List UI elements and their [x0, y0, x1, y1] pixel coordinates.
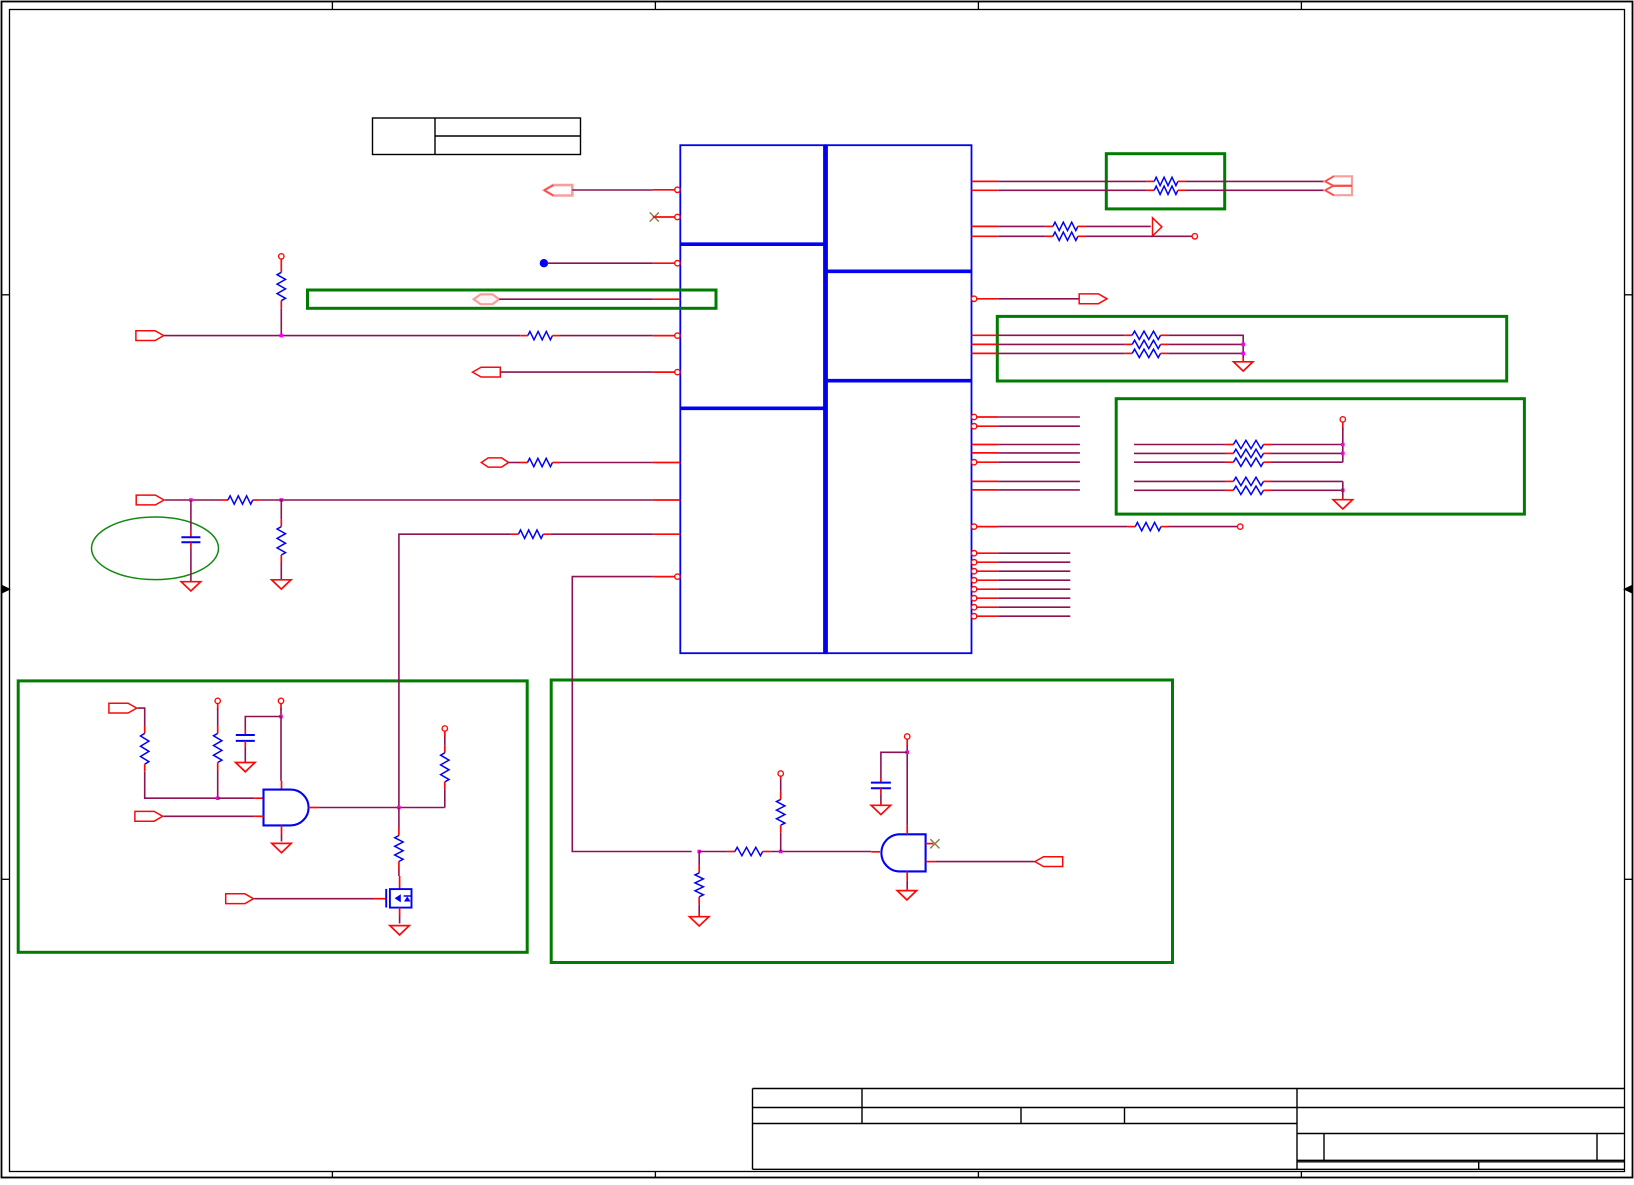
resistor R13 — [1125, 349, 1168, 357]
wire P9 to R20 — [138, 708, 145, 726]
port P5 hexagon — [481, 458, 508, 467]
resistor R11 — [1125, 331, 1168, 339]
AND2 nc pin lead — [926, 843, 934, 845]
wire R6 to vertical node — [399, 534, 511, 807]
port P4 — [473, 367, 501, 377]
resistor R18 — [1226, 486, 1271, 494]
wire P10 to AND1 — [164, 815, 255, 817]
wire U1 to P8 — [998, 298, 1079, 300]
pin U1 pin z — [971, 524, 998, 529]
mosfet Q1 — [386, 889, 411, 908]
ground G1 — [181, 582, 200, 591]
pin U1 pin bus0 — [971, 551, 998, 556]
wire U1 to bottom-middle box — [572, 577, 691, 852]
wire R2 to U1 — [560, 335, 653, 337]
pin U1 pin s — [971, 414, 998, 419]
pin U1 pin g — [653, 462, 681, 464]
wire U1 row 444.5 stub wire — [998, 444, 1080, 446]
pin U1 pin m — [972, 225, 999, 227]
wire U1 to R8 — [998, 189, 1146, 191]
stub circle above AND2 — [905, 734, 910, 739]
AND2 output lead — [926, 861, 936, 863]
wire U1 to R7 — [998, 180, 1146, 182]
highlight box right 2 — [1116, 399, 1524, 514]
lead below pull-up circle — [1342, 422, 1344, 430]
wire AND1 bottom to ground — [281, 835, 283, 842]
wire P11 to Q1 gate — [254, 898, 374, 900]
pin U1 pin bus5 — [971, 596, 998, 601]
ground G9 — [871, 805, 890, 814]
wire R1 to net — [280, 308, 282, 335]
wire U1 row 481.4 stub wire — [998, 480, 1080, 482]
no-connect on AND2 upper output — [930, 839, 939, 848]
open end circle — [1192, 234, 1197, 239]
wire U1 bus row 589.2 — [998, 588, 1070, 590]
wire circle to R21 — [217, 709, 219, 727]
resistor R5 — [277, 519, 285, 562]
ground G7 — [390, 926, 409, 935]
wire J2 down to C1 — [190, 500, 192, 532]
junction J3 — [280, 498, 284, 502]
wire U1 row 417.0 stub wire — [998, 416, 1080, 418]
resistor R6 — [511, 530, 551, 538]
IC U1 right section outline — [826, 145, 972, 653]
ground G8 — [690, 917, 709, 926]
resistor R10 — [1045, 232, 1085, 240]
AND1 lower input lead — [254, 815, 263, 817]
lead below circle R27 — [780, 776, 782, 780]
wire P3 to R2 — [164, 335, 521, 337]
ground G5 — [236, 763, 255, 772]
wire R12 to gnd node — [1168, 343, 1243, 345]
junction J6 — [1341, 443, 1345, 447]
junction J9 — [216, 796, 220, 800]
wire U1 bus row 598.2 — [998, 597, 1070, 599]
AND1 output lead — [309, 807, 319, 809]
resistor R7 — [1147, 177, 1186, 185]
wire U1 bus row 562.2 — [998, 561, 1070, 563]
wire box2 row 453.4 left seg — [1134, 452, 1226, 454]
wire J14 left to C3 — [881, 752, 907, 777]
wire R26 to ground — [698, 904, 700, 913]
Q1 gate lead — [374, 898, 386, 900]
wire port P2 to U1 — [499, 298, 653, 300]
pin U1 pin w — [971, 460, 998, 465]
ground G10 — [897, 891, 916, 900]
junction J12 — [697, 850, 701, 854]
resistor R22 — [441, 745, 449, 789]
AND1 top pin lead — [281, 781, 283, 790]
wire U1 bus row 571.2 — [998, 570, 1070, 572]
junction J5 — [1241, 352, 1245, 356]
highlight box bottom-middle — [551, 680, 1172, 963]
junction J4 — [1241, 343, 1245, 347]
pin U1 pin p — [972, 334, 999, 336]
resistor R4 — [221, 496, 261, 504]
pin U1 pin t — [971, 424, 998, 429]
AND2 input lead — [871, 851, 880, 853]
wire R10 to stub end — [1085, 235, 1192, 237]
wire pull-up vertical — [1342, 428, 1344, 462]
pin U1 pin d — [653, 298, 681, 300]
lead to ground G8 — [698, 913, 700, 917]
junction J10 — [279, 715, 283, 719]
wire J10 down to AND1 top — [280, 717, 282, 781]
resistor R23 — [395, 828, 403, 869]
green ellipse marker — [92, 517, 219, 580]
wire J10 to C2 — [245, 717, 281, 731]
wire R11 to gnd node — [1168, 335, 1243, 358]
wire box2 vertical to ground — [1342, 481, 1344, 496]
junction J1 — [280, 334, 284, 338]
lead to ground G9 — [880, 802, 882, 805]
wire box2 row 490.3 right seg — [1271, 489, 1343, 491]
wire U1 row 452.9 stub wire — [998, 452, 1080, 454]
pin U1 pin e — [653, 333, 680, 338]
wire U1 row 426.2 stub wire — [998, 425, 1080, 427]
IC U1 left divider 2 — [680, 406, 825, 410]
no-connect on U1 pin b — [650, 212, 659, 221]
lead R1 top — [280, 259, 282, 265]
open end circle 2 — [1238, 524, 1243, 529]
pin U1 pin bus6 — [971, 605, 998, 610]
wire box2 row 481.4 left seg — [1134, 480, 1226, 482]
lead to ground G3 — [1242, 358, 1244, 362]
and-gate U2 — [264, 790, 309, 826]
stub circle above C2 — [278, 698, 283, 703]
wire box2 row 462.2 right seg — [1271, 461, 1343, 463]
border mid arrow left — [2, 586, 10, 593]
wire box2 row 462.2 left seg — [1134, 461, 1226, 463]
pin U1 pin q — [972, 343, 999, 345]
resistor R17 — [1226, 477, 1271, 485]
wire Q1 source to ground — [399, 916, 401, 924]
wire R3 to U1 — [560, 462, 653, 464]
wire P6 to R4 — [165, 499, 221, 501]
stub circle above R1 — [279, 254, 284, 259]
wire J3 down to R5 — [280, 500, 282, 519]
resistor R26 — [695, 865, 703, 904]
ground G3 — [1234, 362, 1253, 371]
AND2 top pin lead — [906, 825, 908, 834]
wire AND2 top to J14 — [906, 745, 908, 825]
wire J12 down to R26 — [698, 852, 700, 866]
Q1 drain lead — [399, 876, 401, 889]
wire circle to J10 — [280, 709, 282, 717]
highlight box top-right — [1106, 154, 1224, 209]
wire R5 to ground — [280, 563, 282, 580]
blue dot node — [540, 259, 548, 267]
wire C2 to ground — [244, 746, 246, 762]
wire P4 to U1 — [500, 371, 653, 373]
resistor R16 — [1226, 458, 1271, 466]
wire R23 to Q1 drain — [398, 869, 400, 876]
stub circle above R22 — [442, 726, 447, 731]
pin U1 pin bus4 — [971, 587, 998, 592]
pin U1 pin bus3 — [971, 578, 998, 583]
port P11 — [226, 894, 254, 904]
wire R7 to port — [1185, 180, 1325, 182]
junction J8 — [1341, 489, 1345, 493]
resistor R2 — [520, 331, 560, 339]
port P10 — [135, 811, 163, 821]
wire box2 row 444.5 left seg — [1134, 444, 1226, 446]
pin U1 pin i — [653, 533, 681, 535]
pin U1 pin f — [653, 369, 680, 374]
capacitor C1 — [181, 532, 200, 548]
wire J11 down to R23 — [398, 808, 400, 829]
wire J13 up to R27 — [780, 833, 782, 852]
wire R8 to port — [1185, 189, 1325, 191]
junction J14 — [905, 751, 909, 755]
pull-up circle — [1340, 417, 1345, 422]
junction J7 — [1341, 452, 1345, 456]
pin U1 pin n — [972, 235, 999, 237]
wire U1 row 353.4 to resistor — [998, 352, 1124, 354]
junction J11 — [397, 806, 401, 810]
wire R27 to circle — [780, 780, 782, 792]
junction J13 — [779, 850, 783, 854]
wire net row to R24 — [699, 851, 727, 853]
capacitor C3 — [871, 777, 891, 794]
ground G6 — [272, 843, 291, 852]
pin U1 pin r — [972, 352, 999, 354]
wire R9 to triangle — [1085, 225, 1150, 227]
wire R4 to U1 — [260, 499, 653, 501]
triangle marker D1 — [1153, 218, 1162, 236]
wire C3 to ground — [880, 794, 882, 802]
resistor R8 — [1147, 186, 1186, 194]
resistor R21 — [214, 726, 222, 770]
wire up to R22 — [444, 789, 446, 807]
resistor R3 — [520, 458, 560, 466]
wire P5 to R3 — [509, 462, 521, 464]
pin U1 pin x — [972, 480, 999, 482]
wire AND1 upper input wire — [218, 797, 255, 799]
IC U1 right divider 1 — [826, 269, 972, 273]
IC U1 center divider — [823, 145, 828, 653]
pin U1 pin bus2 — [971, 569, 998, 574]
AND1 upper input lead — [254, 797, 263, 799]
resistor R20 — [141, 726, 149, 772]
highlight box top-left long — [308, 290, 717, 308]
wire box2 row 481.4 right seg — [1271, 480, 1343, 482]
wire R20 to AND1 input row — [145, 772, 218, 799]
resistor R1 — [277, 265, 285, 308]
wire AND2 bottom to ground — [906, 881, 908, 888]
wire U1 row 489.9 stub wire — [998, 489, 1080, 491]
ground G2 — [272, 580, 291, 589]
wire R13 to gnd node — [1168, 352, 1243, 354]
junction J2 — [189, 498, 193, 502]
pin U1 pin bus7 — [971, 614, 998, 619]
port P1 — [544, 185, 572, 195]
wire C1 to ground — [190, 548, 192, 582]
lead below circle C2 — [280, 704, 282, 710]
stub circle above R27 — [778, 771, 783, 776]
wire U1 to R19 — [998, 526, 1128, 528]
wire U1 bus row 580.2 — [998, 579, 1070, 581]
title block — [753, 1089, 1625, 1170]
pin U1 pin j — [653, 574, 680, 579]
port P12 — [1035, 857, 1063, 867]
border mid arrow right — [1625, 586, 1633, 593]
pin U1 pin b — [653, 214, 680, 219]
pin U1 pin k — [972, 180, 999, 182]
wire R24 to R25 node — [770, 851, 871, 853]
port P2 hexagon — [474, 294, 500, 304]
lead below circle R22 — [444, 731, 446, 737]
pin U1 pin a — [653, 187, 680, 192]
pin U1 pin c — [653, 261, 680, 266]
pin U1 pin l — [972, 189, 999, 191]
lead to ground G4 — [1342, 497, 1344, 500]
wire U1 to R6 — [551, 533, 653, 535]
lead to ground G10 — [906, 888, 908, 891]
wire AND1 output net — [319, 807, 445, 809]
lead R21 top — [217, 704, 219, 710]
stub circle above R21 — [215, 698, 220, 703]
wire AND2 output to P12 — [935, 861, 1035, 863]
resistor R24 — [727, 847, 770, 855]
IC U1 right divider 2 — [826, 379, 972, 383]
wire box2 row 444.5 right seg — [1271, 444, 1343, 446]
pin U1 pin u — [972, 444, 999, 446]
Q1 source lead — [399, 908, 401, 916]
AND1 bottom pin lead — [281, 825, 283, 834]
resistor R27 — [777, 792, 785, 833]
port P3 — [136, 331, 164, 341]
wire U1 row 335.3 to resistor — [998, 334, 1124, 336]
pin U1 pin bus1 — [971, 560, 998, 565]
wire box2 row 453.4 right seg — [1271, 452, 1343, 454]
port P9 — [109, 703, 137, 713]
wire blue dot to U1 — [548, 262, 653, 264]
port P8 — [1079, 294, 1107, 304]
wire U1 to R9 — [998, 225, 1045, 227]
port P6 — [136, 495, 164, 505]
port P7 double — [1325, 176, 1352, 195]
wire U1 row 462.2 stub wire — [998, 461, 1080, 463]
revision table — [373, 118, 581, 155]
resistor R14 — [1226, 440, 1271, 448]
AND2 bottom pin lead — [906, 871, 908, 880]
highlight box bottom-left — [18, 681, 527, 952]
wire U1 bus row 553.2 — [998, 552, 1070, 554]
resistor R19 — [1128, 522, 1169, 530]
wire U1 to R10 — [998, 235, 1045, 237]
pin U1 pin v — [972, 452, 999, 454]
wire U1 bus row 616.2 — [998, 615, 1070, 617]
wire R21 to AND1 input row — [217, 770, 219, 798]
wire port P1 to U1 — [572, 189, 653, 191]
wire box2 row 490.3 left seg — [1134, 489, 1226, 491]
pin U1 pin h — [653, 499, 681, 501]
pin U1 pin y — [972, 489, 999, 491]
and-gate U3 — [881, 834, 925, 871]
pin U1 pin o — [971, 296, 998, 301]
lead below circle AND2 — [906, 739, 908, 745]
wire R22 to circle — [444, 733, 446, 745]
resistor R12 — [1125, 340, 1168, 348]
wire U1 bus row 607.2 — [998, 606, 1070, 608]
resistor R15 — [1226, 449, 1271, 457]
capacitor C2 — [236, 730, 255, 747]
highlight box right 1 — [997, 316, 1506, 381]
resistor R9 — [1045, 222, 1085, 230]
IC U1 left divider 1 — [680, 242, 825, 246]
wire R19 to end circle — [1169, 526, 1238, 528]
wire U1 row 344.4 to resistor — [998, 343, 1124, 345]
IC U1 left section outline — [680, 145, 825, 653]
ground G4 — [1333, 500, 1352, 509]
